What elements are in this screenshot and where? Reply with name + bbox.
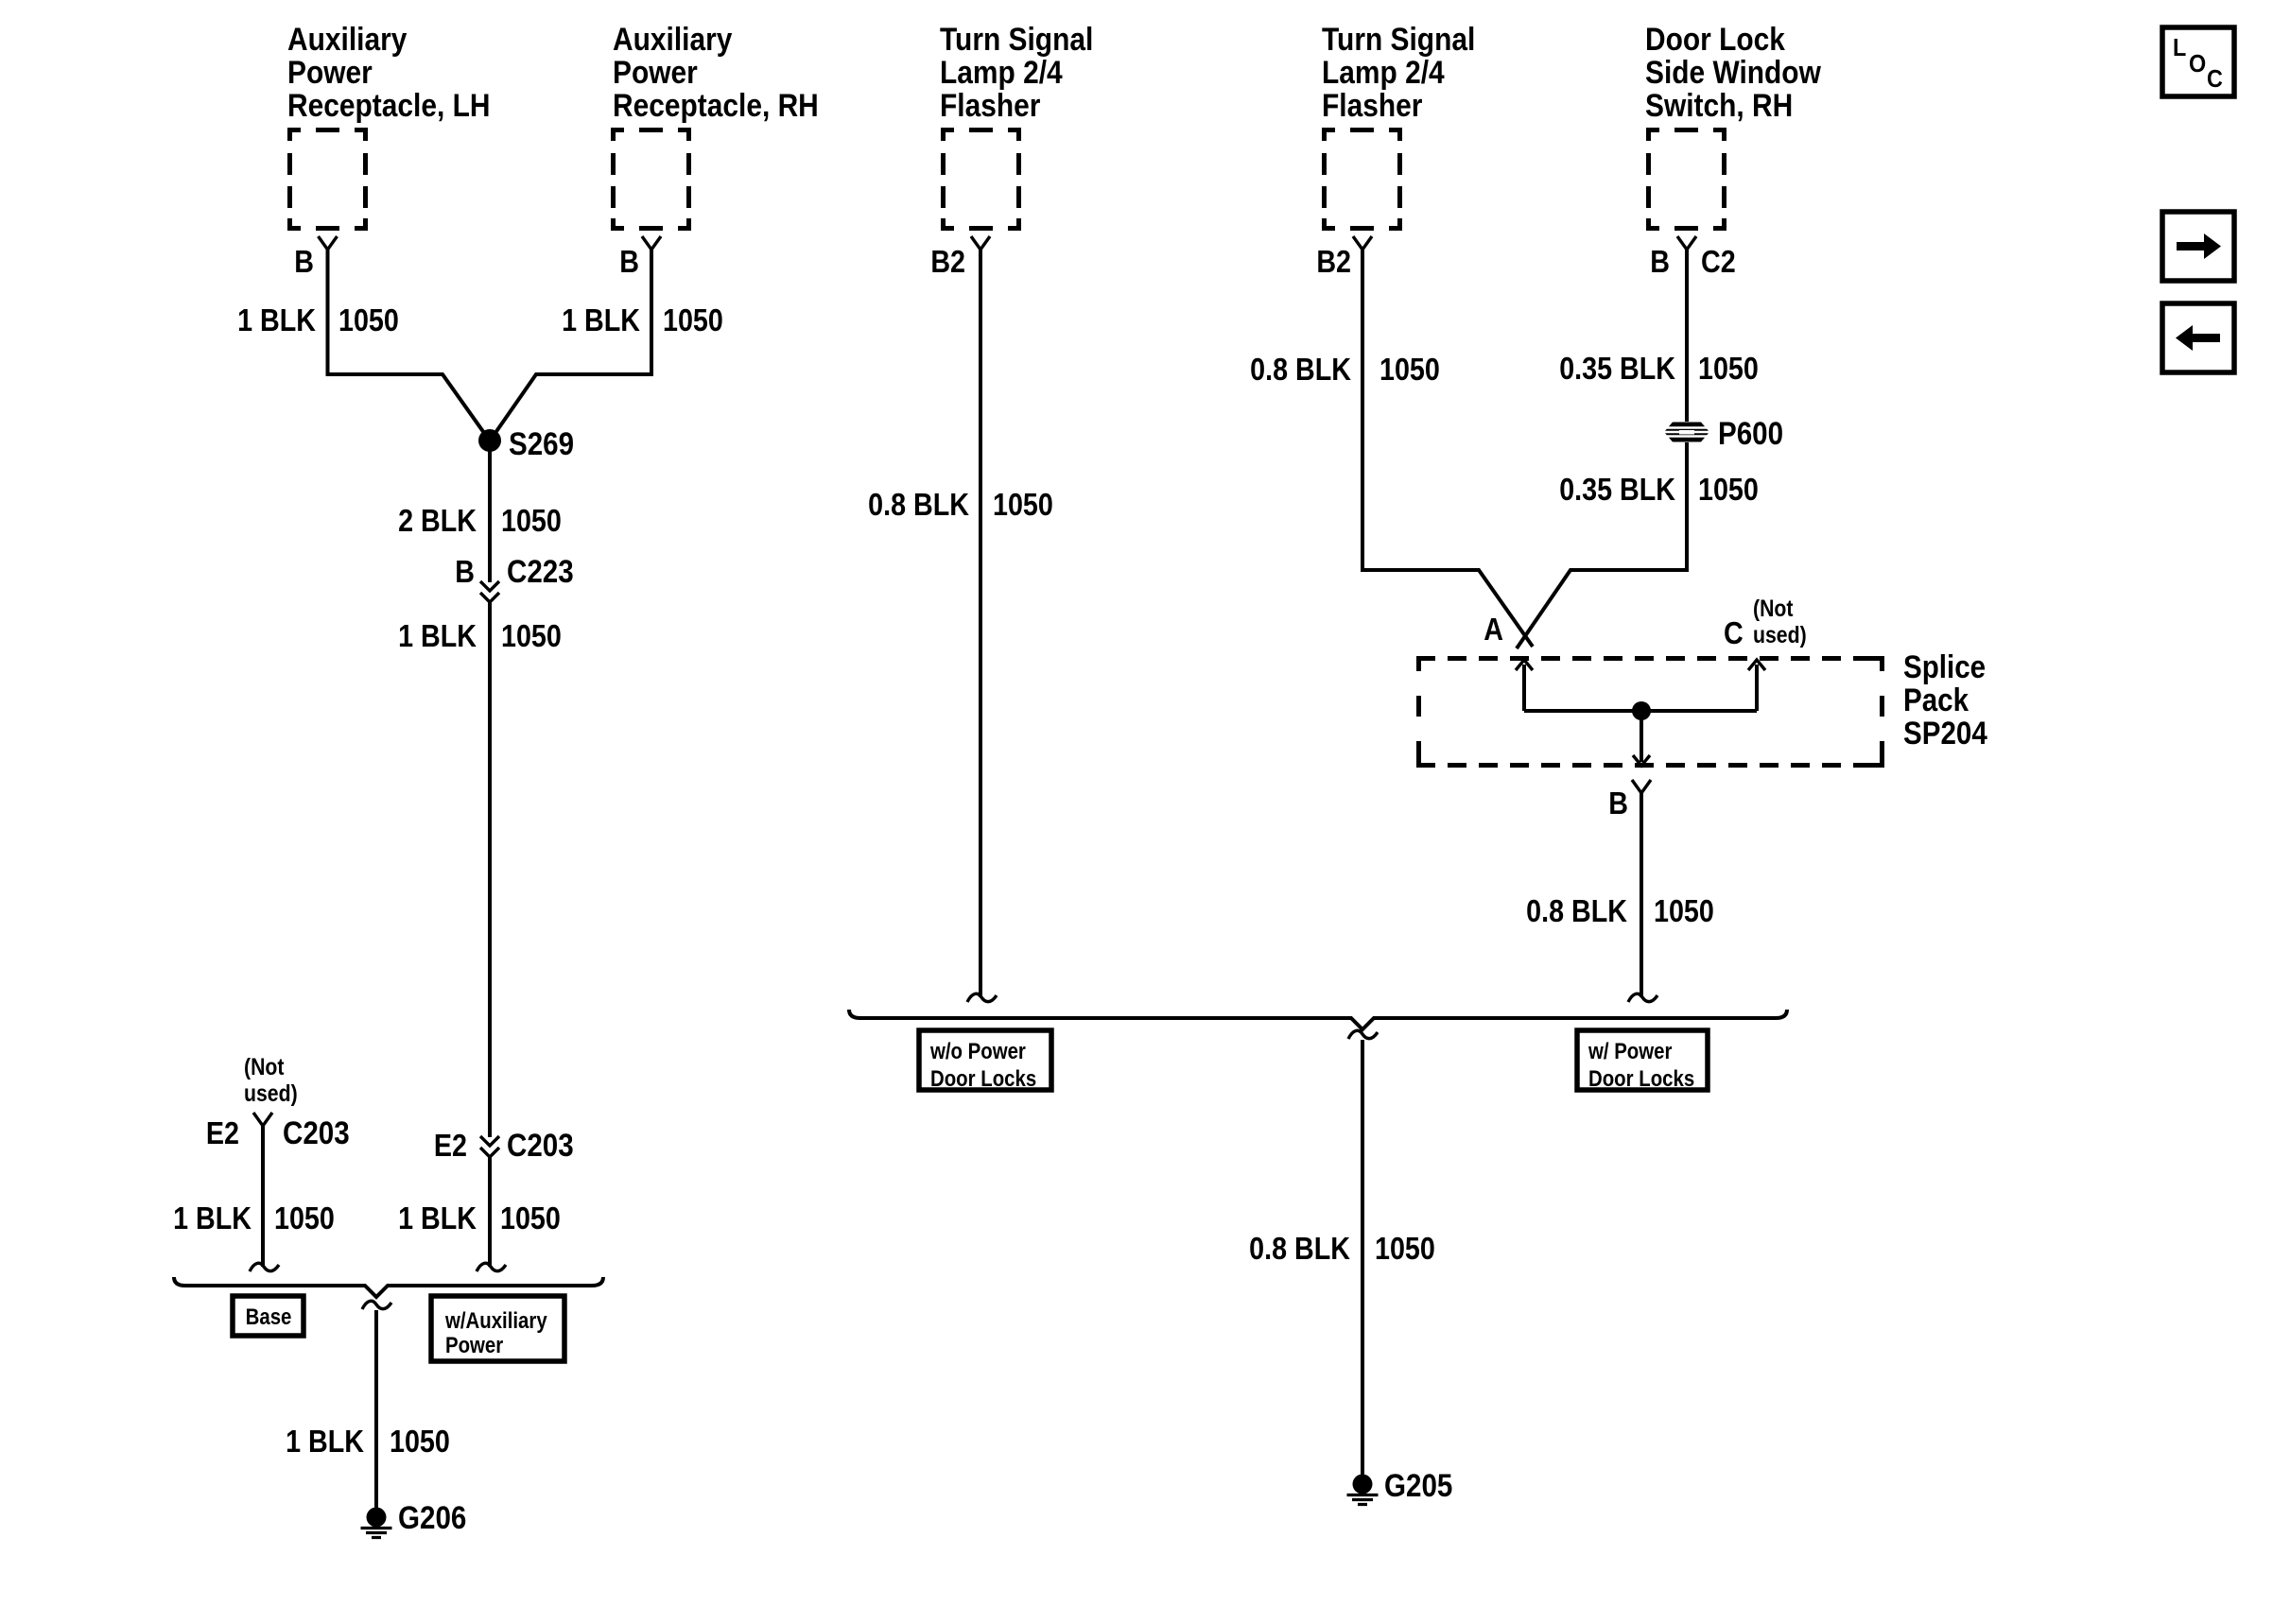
svg-text:Lamp 2/4: Lamp 2/4 bbox=[940, 54, 1063, 90]
svg-text:1050: 1050 bbox=[500, 1201, 561, 1235]
svg-text:0.35 BLK: 0.35 BLK bbox=[1559, 351, 1675, 386]
component label: Auxiliary Power Receptacle, RH bbox=[613, 21, 819, 123]
svg-text:Door Locks: Door Locks bbox=[1588, 1065, 1694, 1091]
svg-text:B: B bbox=[1608, 786, 1628, 821]
svg-text:Power: Power bbox=[613, 54, 698, 90]
svg-text:Switch, RH: Switch, RH bbox=[1645, 87, 1793, 123]
svg-text:B: B bbox=[619, 244, 639, 279]
wire: C203 down to option brace bbox=[488, 1157, 492, 1267]
splice S269 bbox=[478, 429, 501, 452]
svg-text:E2: E2 bbox=[206, 1115, 239, 1150]
svg-text:Receptacle, RH: Receptacle, RH bbox=[613, 87, 819, 123]
svg-text:G206: G206 bbox=[398, 1499, 466, 1535]
svg-text:1 BLK: 1 BLK bbox=[237, 302, 317, 337]
svg-text:2 BLK: 2 BLK bbox=[398, 503, 477, 538]
splice internal bus wire bbox=[1524, 709, 1757, 713]
svg-text:1050: 1050 bbox=[993, 487, 1053, 522]
wire: splice B down to brace bbox=[1640, 793, 1643, 997]
svg-text:Door Locks: Door Locks bbox=[930, 1065, 1036, 1091]
component box: Turn Signal Flasher left bbox=[941, 128, 1021, 231]
component box: Turn Signal Flasher right bbox=[1322, 128, 1402, 231]
svg-text:1050: 1050 bbox=[390, 1424, 450, 1459]
svg-text:1 BLK: 1 BLK bbox=[286, 1424, 365, 1459]
svg-text:0.35 BLK: 0.35 BLK bbox=[1559, 472, 1675, 507]
component label: Turn Signal Lamp 2/4 Flasher (right) bbox=[1322, 21, 1475, 123]
splice pack SP204 dashed box bbox=[1416, 656, 1884, 661]
svg-text:1 BLK: 1 BLK bbox=[562, 302, 641, 337]
wire: Aux LH pin B down and over to S269 bbox=[328, 250, 490, 440]
pin B2 connector, Flasher right bbox=[1353, 236, 1372, 250]
svg-text:B: B bbox=[1650, 244, 1670, 279]
svg-text:1050: 1050 bbox=[338, 302, 399, 337]
svg-text:1050: 1050 bbox=[501, 503, 562, 538]
wire: P600 down, over, diagonal to splice A bbox=[1517, 442, 1687, 648]
component box: Auxiliary Power Receptacle RH bbox=[611, 128, 691, 231]
svg-text:used): used) bbox=[244, 1080, 298, 1106]
svg-text:A: A bbox=[1484, 612, 1503, 647]
component box: Door Lock Side Window Switch bbox=[1646, 128, 1726, 231]
svg-text:C: C bbox=[2207, 66, 2223, 93]
grommet P600 bbox=[1662, 423, 1711, 442]
splice pack label bbox=[1903, 648, 1987, 751]
svg-text:0.8 BLK: 0.8 BLK bbox=[1526, 893, 1627, 928]
svg-text:E2: E2 bbox=[434, 1128, 467, 1163]
svg-text:C203: C203 bbox=[283, 1114, 350, 1150]
svg-text:B: B bbox=[294, 244, 314, 279]
wire: Aux RH pin B down and over to S269 bbox=[491, 250, 651, 440]
option brace (Base / w Auxiliary Power) bbox=[174, 1277, 603, 1297]
svg-text:SP204: SP204 bbox=[1903, 715, 1987, 751]
svg-text:1050: 1050 bbox=[1698, 351, 1759, 386]
wire: stub below C203 bbox=[261, 1126, 265, 1267]
svg-text:Base: Base bbox=[246, 1304, 292, 1329]
svg-text:w/Auxiliary: w/Auxiliary bbox=[444, 1307, 547, 1333]
wire: S269 down to connector C223 bbox=[488, 441, 492, 582]
pin B connector, Aux LH bbox=[319, 236, 338, 250]
svg-text:w/ Power: w/ Power bbox=[1588, 1038, 1673, 1063]
connector C203 pin E2 stub fork (not used) bbox=[253, 1113, 272, 1126]
svg-text:Power: Power bbox=[287, 54, 373, 90]
wire: Flasher right B2 down, over, diagonal to splice A bbox=[1362, 250, 1533, 647]
connector C203 symbol (main) bbox=[480, 1136, 499, 1157]
svg-text:Side Window: Side Window bbox=[1645, 54, 1821, 90]
svg-text:G205: G205 bbox=[1384, 1467, 1452, 1503]
brace center squiggle bbox=[362, 1301, 391, 1309]
option box w/o Power Door Locks bbox=[919, 1030, 1051, 1090]
ground G206 bbox=[361, 1508, 392, 1538]
option brace (w/o Power Door Locks / w Power Door Locks) bbox=[849, 1010, 1787, 1029]
strain relief squiggle TS1 bbox=[967, 993, 997, 1002]
svg-text:1 BLK: 1 BLK bbox=[173, 1201, 252, 1235]
svg-text:B: B bbox=[455, 554, 475, 589]
svg-text:B2: B2 bbox=[1316, 244, 1351, 279]
wire: C223 down to C203 bbox=[488, 602, 492, 1137]
pin B2 connector, Flasher left bbox=[971, 236, 990, 250]
ground G205 bbox=[1347, 1475, 1379, 1505]
nav arrow box left bbox=[2162, 303, 2234, 372]
nav arrow box right bbox=[2162, 212, 2234, 281]
svg-text:w/o Power: w/o Power bbox=[929, 1038, 1026, 1063]
connector C223 symbol bbox=[480, 581, 499, 602]
svg-text:1050: 1050 bbox=[501, 618, 562, 653]
svg-text:Lamp 2/4: Lamp 2/4 bbox=[1322, 54, 1445, 90]
svg-text:P600: P600 bbox=[1718, 415, 1783, 451]
svg-text:B2: B2 bbox=[930, 244, 965, 279]
option box w/Auxiliary Power bbox=[431, 1296, 564, 1361]
svg-text:0.8 BLK: 0.8 BLK bbox=[1249, 1231, 1350, 1266]
svg-text:L: L bbox=[2173, 35, 2186, 61]
component label: Turn Signal Lamp 2/4 Flasher (left) bbox=[940, 21, 1093, 123]
svg-text:Flasher: Flasher bbox=[1322, 87, 1422, 123]
svg-text:1050: 1050 bbox=[1375, 1231, 1435, 1266]
svg-text:C2: C2 bbox=[1701, 244, 1736, 279]
svg-text:Door Lock: Door Lock bbox=[1645, 21, 1785, 57]
svg-text:C: C bbox=[1724, 615, 1744, 650]
option box Base bbox=[233, 1296, 304, 1336]
svg-text:S269: S269 bbox=[509, 425, 574, 461]
wire: Door Lock C2 down to P600 bbox=[1685, 250, 1689, 422]
svg-text:Auxiliary: Auxiliary bbox=[613, 21, 733, 57]
svg-text:O: O bbox=[2189, 51, 2206, 78]
svg-text:1050: 1050 bbox=[1654, 893, 1714, 928]
svg-text:1050: 1050 bbox=[663, 302, 723, 337]
wire: Flasher left B2 down to brace bbox=[979, 250, 982, 997]
splice pin B fork bbox=[1632, 780, 1651, 793]
pin C2 connector, Door Lock switch bbox=[1677, 236, 1696, 250]
splice internal wire A arrow up bbox=[1522, 665, 1526, 711]
svg-text:1050: 1050 bbox=[1379, 352, 1440, 387]
option box w/ Power Door Locks bbox=[1577, 1030, 1708, 1090]
svg-text:Pack: Pack bbox=[1903, 682, 1969, 717]
wire: brace to ground G205 bbox=[1361, 1040, 1364, 1475]
strain relief squiggle splice-B wire bbox=[1628, 993, 1657, 1002]
svg-text:1 BLK: 1 BLK bbox=[398, 1201, 477, 1235]
svg-text:used): used) bbox=[1753, 621, 1807, 648]
svg-text:(Not: (Not bbox=[1753, 595, 1794, 621]
splice internal junction dot bbox=[1632, 701, 1651, 720]
splice internal wire C arrow up bbox=[1755, 665, 1759, 711]
svg-text:1050: 1050 bbox=[274, 1201, 335, 1235]
svg-text:Auxiliary: Auxiliary bbox=[287, 21, 408, 57]
svg-text:(Not: (Not bbox=[244, 1053, 285, 1080]
svg-text:0.8 BLK: 0.8 BLK bbox=[868, 487, 969, 522]
svg-text:1050: 1050 bbox=[1698, 472, 1759, 507]
svg-text:C223: C223 bbox=[507, 553, 574, 589]
svg-text:Receptacle, LH: Receptacle, LH bbox=[287, 87, 490, 123]
strain relief squiggle main bbox=[477, 1263, 506, 1271]
component label: Door Lock Side Window Switch, RH bbox=[1645, 21, 1821, 123]
svg-text:Turn Signal: Turn Signal bbox=[1322, 21, 1475, 57]
svg-text:0.8 BLK: 0.8 BLK bbox=[1250, 352, 1351, 387]
strain relief squiggle stub bbox=[250, 1263, 279, 1271]
wire: brace to ground G206 bbox=[374, 1310, 378, 1509]
pin B connector, Aux RH bbox=[642, 236, 661, 250]
svg-text:Flasher: Flasher bbox=[940, 87, 1040, 123]
svg-text:C203: C203 bbox=[507, 1127, 574, 1163]
LOC box bbox=[2162, 27, 2234, 96]
splice internal wire down arrow bbox=[1640, 711, 1643, 762]
svg-text:Power: Power bbox=[445, 1332, 504, 1357]
component box: Auxiliary Power Receptacle LH bbox=[287, 128, 368, 231]
svg-text:Splice: Splice bbox=[1903, 648, 1986, 684]
component label: Auxiliary Power Receptacle, LH bbox=[287, 21, 490, 123]
svg-text:1 BLK: 1 BLK bbox=[398, 618, 477, 653]
svg-text:Turn Signal: Turn Signal bbox=[940, 21, 1093, 57]
brace center squiggle (middle) bbox=[1348, 1030, 1378, 1039]
